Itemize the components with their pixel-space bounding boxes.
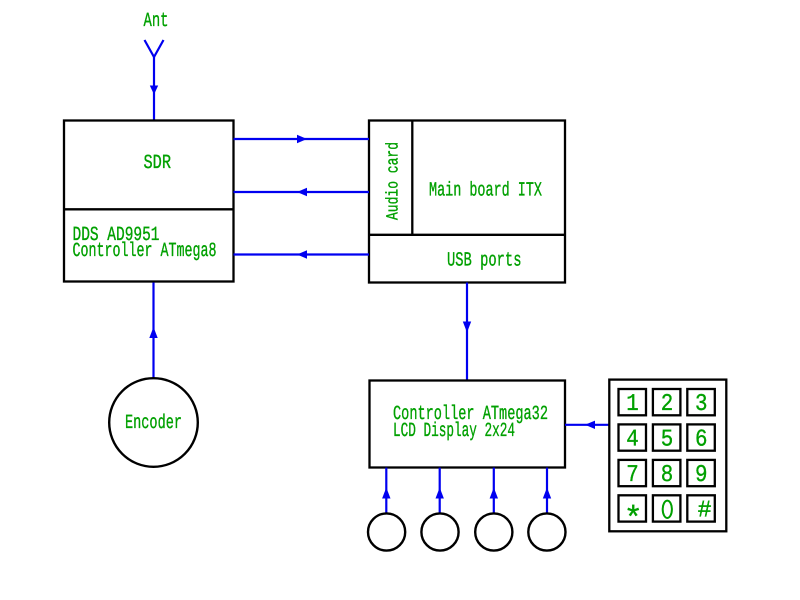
svg-text:4: 4	[626, 427, 639, 454]
key 7	[619, 460, 647, 489]
key 1	[619, 389, 647, 418]
wire button 3 to Controller (arrow up)	[490, 468, 498, 514]
key 6	[687, 424, 715, 453]
key 4	[619, 424, 647, 453]
wire button 1 to Controller (arrow up)	[382, 468, 390, 514]
key 3	[687, 389, 715, 418]
svg-text:*: *	[624, 501, 643, 538]
wire Audio card to SDR (arrow left)	[234, 188, 370, 196]
svg-text:Controller ATmega8: Controller ATmega8	[73, 240, 217, 263]
key 9	[687, 460, 715, 489]
block DDS AD9951 / Controller ATmega8	[64, 209, 234, 263]
key 0	[653, 495, 681, 521]
svg-text:SDR: SDR	[144, 152, 172, 175]
svg-text:Encoder: Encoder	[125, 412, 182, 435]
svg-text:Audio card: Audio card	[385, 142, 404, 220]
node Audio card label	[385, 142, 404, 220]
component button circle 2	[421, 513, 458, 550]
svg-text:USB ports: USB ports	[447, 250, 522, 273]
node USB ports label	[447, 250, 522, 273]
wire USB ports to DDS controller (arrow left)	[234, 250, 370, 258]
component button circle 1	[368, 513, 405, 550]
wire antenna to SDR (arrow down)	[150, 57, 158, 121]
component Encoder	[109, 378, 198, 467]
key 8	[653, 460, 681, 489]
component Keypad outline	[609, 380, 726, 532]
key 5	[653, 424, 681, 453]
svg-text:2: 2	[661, 391, 674, 418]
key #	[687, 495, 715, 524]
key 2	[653, 389, 681, 418]
block Main board ITX with Audio card strip and USB ports	[369, 121, 565, 283]
wire Encoder to SDR (arrow up)	[149, 283, 157, 379]
wire button 4 to Controller (arrow up)	[543, 468, 551, 514]
svg-text:1: 1	[626, 391, 639, 418]
svg-text:Ant: Ant	[144, 10, 169, 33]
node Ant label	[144, 10, 169, 33]
svg-text:#: #	[698, 498, 712, 525]
svg-text:LCD Display 2x24: LCD Display 2x24	[393, 420, 515, 443]
svg-text:8: 8	[661, 462, 674, 489]
svg-text:7: 7	[626, 462, 639, 489]
svg-text:3: 3	[695, 391, 708, 418]
node Main board ITX label	[429, 180, 542, 203]
block Controller ATmega32 / LCD Display 2x24	[370, 381, 566, 468]
svg-text:5: 5	[661, 427, 674, 454]
wire Keypad to Controller (arrow left)	[565, 421, 609, 429]
key *	[619, 495, 647, 538]
component button circle 4	[528, 513, 565, 550]
wire SDR to Audio card (arrow right)	[234, 135, 370, 143]
wire USB ports to Controller ATmega32 (arrow down)	[463, 283, 471, 381]
wire button 2 to Controller (arrow up)	[436, 468, 444, 514]
svg-text:Main board ITX: Main board ITX	[429, 180, 542, 203]
antenna ANT	[145, 40, 164, 57]
component button circle 3	[475, 513, 512, 550]
block SDR	[64, 121, 234, 282]
svg-text:9: 9	[695, 462, 708, 489]
svg-text:6: 6	[695, 427, 708, 454]
